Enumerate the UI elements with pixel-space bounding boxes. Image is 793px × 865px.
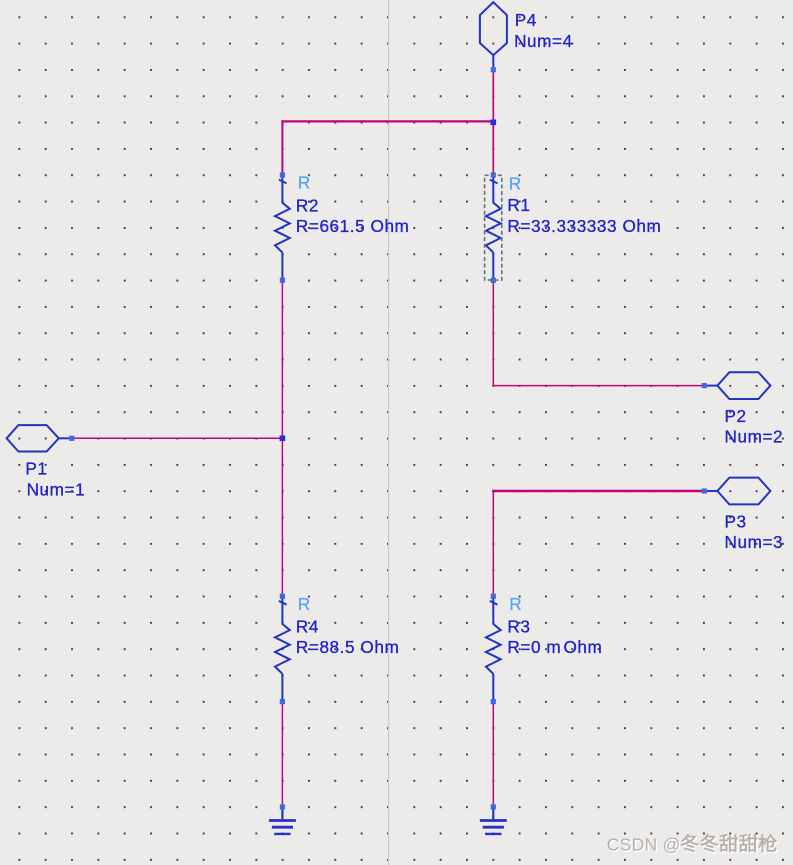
wire P3 corner down to R3 — [492, 491, 494, 594]
svg-text:R=88.5 Ohm: R=88.5 Ohm — [296, 637, 399, 657]
svg-text:R: R — [509, 594, 522, 614]
wire left branch top — [281, 121, 283, 173]
port P1 — [7, 425, 70, 451]
svg-text:P2: P2 — [725, 406, 747, 426]
wire to P3 (bold) — [492, 490, 704, 493]
watermark — [607, 834, 779, 856]
svg-text:CSDN @: CSDN @ — [607, 835, 681, 855]
svg-text:R: R — [298, 594, 311, 614]
svg-text:R3: R3 — [507, 616, 530, 636]
selection box around R1 — [485, 175, 502, 280]
wire P1 to node A — [72, 437, 283, 439]
svg-text:Num=4: Num=4 — [514, 31, 573, 51]
wire R3 bottom to ground — [492, 704, 494, 807]
wire to P2 — [493, 385, 705, 387]
ground (right) — [480, 809, 507, 834]
resistor R1 symbol — [486, 177, 501, 279]
svg-text:P3: P3 — [725, 511, 747, 531]
port P4 — [480, 2, 507, 67]
svg-text:Num=3: Num=3 — [725, 532, 784, 552]
junction node at top bus — [491, 120, 497, 126]
junction node A (P1 tap) — [280, 436, 286, 442]
svg-text:R=0 mOhm: R=0 mOhm — [507, 637, 602, 657]
svg-text:R=661.5 Ohm: R=661.5 Ohm — [296, 216, 410, 236]
svg-text:Num=2: Num=2 — [725, 427, 784, 447]
svg-text:P1: P1 — [25, 459, 47, 479]
svg-text:R4: R4 — [296, 616, 319, 636]
svg-text:R1: R1 — [507, 195, 530, 215]
wire junction to R1 — [492, 122, 494, 173]
svg-text:R=33.333333 Ohm: R=33.333333 Ohm — [507, 216, 661, 236]
svg-text:R: R — [509, 174, 522, 194]
wire top horizontal bus — [281, 120, 493, 122]
resistor R3 symbol — [486, 598, 501, 700]
svg-text:R: R — [298, 173, 311, 193]
port P2 — [707, 372, 771, 399]
wire P4 stem to junction — [492, 71, 494, 122]
resistor R4 symbol — [275, 598, 290, 700]
wire R1 bottom down — [492, 282, 494, 385]
svg-text:P4: P4 — [515, 10, 537, 30]
wire R2 bottom to R4 top — [281, 282, 283, 594]
svg-text:R2: R2 — [296, 195, 319, 215]
port P3 — [707, 478, 771, 505]
resistor R2 symbol — [275, 177, 290, 279]
svg-text:Num=1: Num=1 — [27, 480, 86, 500]
wire R4 bottom to ground — [281, 704, 283, 807]
ground (left) — [269, 809, 296, 834]
